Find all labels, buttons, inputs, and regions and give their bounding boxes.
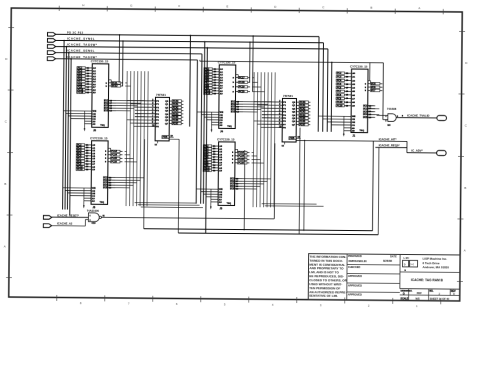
svg-text:PC41: PC41 [173,103,179,106]
comparator 74F521 H6 body [155,93,169,141]
wire col2 tap lower io3 [242,183,263,185]
SRAM J3 upper right pin PC13 [232,151,250,154]
SRAM J6 address pin PC8 [77,83,97,86]
input connector port 5 [47,57,55,61]
wire bundle col1 vertical 4 [137,71,138,206]
SRAM CY7C150_15 J5 body [90,136,109,209]
SRAM J5 control pin CS [70,195,96,197]
SRAM J1 control collector wire and junction [343,116,345,136]
SRAM J4 upper right pin riser [236,75,239,78]
svg-text:I/O5: I/O5 [104,111,109,113]
svg-text:C: C [465,123,467,127]
comparator H6 P input pin 4 [135,112,160,115]
comparator H4 Q input pin 5 [292,117,310,120]
SRAM J6 data pin I/O3 [104,105,116,107]
wire lineB bottom bus horizontal [178,233,378,235]
SRAM J6 address pin PC10 [77,88,97,91]
wire col1 tap lower io3 [115,182,136,184]
SRAM J4 address pin PC8 [204,84,224,87]
svg-text:WE: WE [352,116,356,118]
net label ICACHE_SEN0L [67,49,95,53]
svg-text:ICACHE_TVALID: ICACHE_TVALID [407,113,429,117]
svg-text:PC42: PC42 [300,107,306,110]
wire col2 tap lower PC15 [252,158,261,160]
wire col2 feeder vertical net4 corner [201,54,202,204]
SRAM J3 address pin PC9 [203,164,223,167]
svg-text:NC: NC [387,125,391,127]
wire bundle col2 vertical 6 [271,72,272,207]
comparator H4 Q input pin 3 [292,110,310,113]
net label ICACHE_SYN0L [67,37,95,41]
svg-text:PC16: PC16 [238,163,244,165]
SRAM J5 data pin I/O1 [103,177,115,179]
zone tick marks and numbers bottom edge [57,295,441,308]
wire ADV corner down [407,141,437,153]
comparator H6 P input pin 0 [135,99,160,102]
SRAM J5 control pin A9 [84,197,96,200]
SRAM J4 data pin I/O1 [231,101,243,103]
svg-text:PC16: PC16 [111,162,117,164]
SRAM J3 data pin I/O5 [230,187,242,190]
wire col3 feeder vertical net1 corner [317,37,320,132]
wire col1 tap lower io1 [115,177,143,179]
svg-text:L M I: L M I [404,257,410,260]
wire bundle col2 vertical 2 [257,72,258,207]
wire col1 feeder vertical net2 [62,40,65,210]
wire col2 tap lower PC16 [252,162,264,164]
svg-text:PC40: PC40 [300,101,306,104]
wire col3 data riser from extension line [369,63,371,81]
svg-text:|∞|: |∞| [411,262,415,266]
svg-text:PC15: PC15 [238,159,244,161]
comparator H6 Q input pin 2 [165,106,183,109]
svg-text:D: D [453,292,455,296]
SRAM J4 control pin WE [197,112,224,114]
SRAM J4 data pin I/O3 [231,106,243,108]
comparator H6 P input pin 3 [135,109,160,112]
net label IC_ADV* [411,149,423,153]
title block outer frame [308,254,460,301]
svg-text:REF: REF [417,292,422,295]
SRAM J1 address pin PC4 [336,79,356,82]
svg-text:TSQ: TSQ [100,125,105,127]
SRAM J3 data pin I/O1 [230,178,242,180]
svg-text:CE: CE [352,119,356,121]
svg-text:CY7C150_15: CY7C150_15 [350,64,368,68]
wire AND gate inputs [377,115,388,119]
svg-text:ICACHE: TAG RAM B: ICACHE: TAG RAM B [411,278,444,282]
wire col1 tap lower PC16 [125,161,137,163]
svg-text:H: H [82,3,84,7]
SRAM J1 control pin OE [327,122,355,124]
SRAM J1 address pin PC6 [336,86,356,89]
svg-text:A: A [418,6,420,10]
svg-text:D: D [5,57,7,61]
svg-text:PC47: PC47 [172,122,178,125]
svg-text:PC44: PC44 [173,113,179,116]
wire col2 tap P0 [254,101,262,103]
wire col2 riser to lineB [298,128,301,234]
svg-text:PC19: PC19 [239,87,245,89]
SRAM J3 upper right pin riser [235,149,238,152]
wire bundle col1 vertical 7 [147,71,148,206]
svg-text:ICACHE_RESET*: ICACHE_RESET* [57,213,80,217]
SRAM J4 address pin PC9 [204,87,224,90]
wire col2 feeder vertical net3 [205,47,208,233]
comparator H6 Q input pin 7 [165,122,183,125]
SRAM J4 control pin A9 [212,121,224,124]
wire col2 tap P4 [262,114,268,116]
wire col1 tap io3 [116,105,137,107]
svg-text:CS: CS [352,125,356,127]
net label ICACHE_REQ0* [379,143,401,147]
SRAM J3 upper right pin PC15 [232,158,250,161]
svg-text:PC5: PC5 [337,84,342,86]
wire bundle col1 vertical 2 [130,71,131,206]
wire col2 tap upper box 1 [252,77,254,79]
wire bundle col1 vertical 1 [126,71,127,206]
wire col1 tap io1 [116,100,144,102]
svg-text:A: A [4,244,6,248]
comparator H6 P input pin 8 [135,125,160,128]
wire col2 tap P7 [257,123,261,125]
SRAM J6 upper right pin riser [109,80,112,83]
net label ICACHE_TVALID [407,113,429,117]
svg-text:B: B [464,186,466,190]
AND gate U2 74AS08 [385,107,404,127]
SRAM J5 control pin CE [65,190,95,192]
svg-text:SHEET 14 OF 40: SHEET 14 OF 40 [430,298,450,301]
SRAM J1 data pin I/O1 [363,105,375,107]
comparator H6 P input pin 7 [135,122,160,125]
SRAM J4 address pin PC7 [204,81,224,84]
title block signature column [347,254,400,297]
svg-text:PRB: PRB [163,137,168,139]
SRAM J1 address pin PC3 [336,76,356,79]
wire bundle col1 vertical 3 [133,71,134,206]
wire col1 PC12 riser from net2 [122,40,124,86]
wire col1 feeder vertical net4 [67,52,70,210]
svg-text:PC44: PC44 [300,114,306,117]
svg-text:PC20: PC20 [239,91,245,93]
svg-text:APPROVED: APPROVED [348,294,362,297]
wire col2 tap lower PC14 [252,155,257,157]
svg-text:I/O5: I/O5 [103,188,108,190]
SRAM CY7C150_15 J6 body [90,59,109,132]
wire col2 feeder vertical net5 corner [196,60,197,204]
svg-text:D: D [465,61,467,65]
wire lineA right riser to ICACHE_HIT [372,141,375,231]
wire col1 tap io2 [116,102,141,104]
wire col2 PC17 riser from net1 [252,35,254,91]
SRAM J6 data pin I/O5 [104,109,116,112]
wire comparator H4 PRB drop to lineA [303,140,305,231]
SRAM J4 upper right pin PC19 [233,86,251,89]
comparator H4 P input pin 3 [262,110,287,113]
svg-text:PC3: PC3 [337,77,342,79]
SRAM J3 control pin CE [201,192,223,194]
comparator H6 Q input pin 6 [165,119,183,122]
SRAM J5 address pin PC2 [76,144,96,147]
SRAM J1 data pin I/O4 [363,113,375,116]
svg-text:I/O3: I/O3 [363,111,368,113]
svg-text:PC40: PC40 [173,100,179,103]
SRAM J3 address pin PC18 [203,169,223,172]
svg-text:PC18: PC18 [77,169,83,171]
comparator H6 Q input pin 3 [165,109,183,112]
SRAM J4 control pin CS [207,120,223,122]
comparator H4 P input pin 7 [262,123,287,126]
SRAM J3 address pin PC2 [203,145,223,148]
SRAM J5 data pin I/O3 [103,182,115,184]
SRAM J4 address pin PC3 [204,71,224,74]
wire col2 tap lower io4 [242,185,260,187]
svg-text:PC41: PC41 [300,104,306,107]
SRAM J3 control collector wire and junction [210,189,212,209]
wire col1 tap P4 [135,113,141,115]
wire net3 horizontal ICACHE_TAG0W* [56,47,328,49]
comparator H6 P input pin 5 [135,115,160,118]
svg-text:PC45: PC45 [173,116,179,119]
SRAM J4 upper right pin PC17 [233,76,251,79]
SRAM J6 address pin PC3 [77,69,97,72]
svg-text:ICACHE_REQ0*: ICACHE_REQ0* [379,143,401,147]
SRAM J1 address pin PC2 [336,72,356,75]
svg-text:IC_ADV*: IC_ADV* [411,149,423,153]
SRAM J5 control pin A8 [84,200,96,203]
SRAM J6 upper right pin PC11 [106,82,124,85]
SRAM J6 control pin CE [66,113,96,115]
svg-text:B: B [370,6,372,10]
svg-text:74AS1000: 74AS1000 [87,209,100,213]
zone tick marks left edge [3,27,14,277]
title block drawing title cell [400,278,460,289]
zone tick marks right edge [457,31,468,281]
svg-text:I/O5: I/O5 [371,84,376,86]
wire bundle col1 vertical 5 [140,71,141,206]
svg-text:NO.: NO. [429,291,433,293]
svg-text:TSQ: TSQ [100,202,105,204]
SRAM J5 control collector wire and junction [83,188,85,208]
SRAM J6 control pin A8 [85,123,97,126]
svg-text:74F521: 74F521 [283,94,293,98]
SRAM J1 upper right pin I/O5 [365,82,383,85]
SRAM J3 control pin OE [203,194,222,196]
wire col3 data tap 5 [368,116,374,118]
SRAM J5 address pin PC4 [76,149,96,152]
SRAM J4 data pin I/O2 [231,104,243,106]
output connector IC_ADV* [437,150,447,155]
input connector port 4 [47,51,55,55]
wire col2 tap io5 [243,111,257,113]
SRAM J4 address pin PC2 [204,68,224,71]
svg-text:N/S: N/S [416,297,421,300]
svg-text:PC8: PC8 [337,95,342,97]
SRAM J1 control pin A8 [344,130,356,133]
wire col1 tap P0 [127,100,135,102]
SRAM J1 control pin A9 [344,127,356,130]
wire col3 data tap 4 [368,113,380,115]
wire col1 tap lower PC14 [125,154,130,156]
svg-text:OE: OE [352,122,356,124]
wire col2 tap io2 [243,103,268,105]
SRAM CY7C150_15 J1 body [349,64,368,137]
comparator H6 PRB enable output pin 19 [162,135,174,139]
SRAM J3 address pin PC5 [203,153,223,156]
svg-text:PRB: PRB [290,138,295,140]
svg-text:PC15: PC15 [111,158,117,160]
SRAM J1 address pin PC7 [336,90,356,93]
wire col1 tap lower PC15 [125,157,134,159]
comparator H4 Q input pin 0 [292,101,310,104]
wire ICACHE_HIT* horizontal [296,139,407,142]
SRAM J3 control pin A8 [211,201,223,204]
wire col2 tap lower io1 [242,178,270,180]
SRAM J3 data pin I/O4 [230,185,242,188]
net label ICACHE_TAG0W* [67,55,98,59]
SRAM J5 address pin PC8 [76,160,96,163]
svg-text:I/O6: I/O6 [371,87,376,89]
SRAM J4 data pin I/O4 [231,108,243,111]
wire col3 feeder vertical net2 corner [322,43,325,132]
comparator H6 P input pin 1 [135,103,160,106]
svg-text:74AS08: 74AS08 [387,107,397,111]
wire col1-to-col2 lower run 2 [138,204,200,207]
wire col2 tap lower io5 [242,188,256,190]
SRAM J3 data pin I/O3 [230,183,242,185]
zone tick marks and letters top edge [59,3,443,14]
SRAM J5 upper right pin PC15 [105,157,123,160]
svg-text:SENTATIVE OF LMI.: SENTATIVE OF LMI. [309,294,338,298]
wire col3 feeder vertical from extension line [330,62,332,132]
wire bundle col2 vertical 7 [274,72,275,207]
SRAM J3 upper right pin PC16 [232,162,250,165]
comparator H6 Q input pin 4 [165,112,183,115]
svg-text:CY7C150_15: CY7C150_15 [90,136,108,140]
comparator H4 enable pin 1 bottom [282,142,285,148]
svg-text:ICACHE_A2: ICACHE_A2 [57,222,73,226]
input connector port 2 [47,39,55,43]
wire col1 tap upper box 2 [125,85,130,87]
title block company cell with LMI logo [400,257,460,273]
wire col2-to-col3 lower run 1 [262,203,317,205]
wire col3 data tap 2 [368,108,380,110]
SRAM J3 address pin PC6 [203,156,223,159]
comparator H4 Q input pin 2 [292,107,310,110]
net label ICACHE_RESET* [57,213,80,217]
comparator H4 P input pin 8 [262,126,287,129]
wire col1 feeder vertical net3 [64,46,67,210]
svg-text:PC18: PC18 [337,106,343,108]
wire col1 tap P6 [127,119,135,121]
wire bundle col2 vertical 5 [267,72,268,207]
SRAM J1 upper right pin riser [368,81,371,84]
SRAM J1 upper right pin I/O7 [365,89,383,92]
NAND gate U1 74AS1000 [87,209,106,225]
svg-text:APPROVED: APPROVED [348,275,362,278]
wire col2 tap P1 [257,104,261,106]
comparator H4 P input pin 6 [262,120,287,123]
wire col2 tap P5 [262,117,271,119]
wire col2 tap io1 [243,101,271,103]
wire lineB left riser from comparator H6 PRB [168,139,179,233]
comparator H4 PRB enable output pin 19 [289,136,301,140]
wire col1-to-col2 lower run 1 [135,202,196,205]
svg-text:PC7: PC7 [337,91,342,93]
comparator H4 P input pin 5 [262,117,287,120]
wire bundle col2 vertical 4 [264,72,265,207]
svg-text:I/O4: I/O4 [363,113,368,116]
comparator H4 Q input pin 6 [292,120,310,123]
SRAM J6 address pin PC6 [77,78,97,81]
SRAM J5 upper right pin PC13 [105,150,123,153]
SRAM J5 address pin PC18 [76,168,96,171]
SRAM J6 control collector wire and junction [84,111,86,131]
svg-text:C: C [5,119,7,123]
svg-text:I/O7: I/O7 [371,90,376,92]
drawing border frame [9,8,463,301]
comparator H6 P input pin 6 [135,119,160,122]
SRAM J3 address pin PC4 [203,150,223,153]
wire col3 data tap 1 [368,105,374,107]
svg-text:PC42: PC42 [173,106,179,109]
svg-text:PC14: PC14 [238,155,244,158]
SRAM J3 control pin WE [196,189,223,191]
SRAM J6 data pin I/O4 [104,107,116,110]
svg-text:PC12: PC12 [112,86,118,88]
wire col1 tap io4 [116,107,134,109]
wire col1-to-col2 lower run 3 [141,206,203,209]
wire col1 feeder vertical net5 [69,58,72,215]
SRAM J5 upper right pin PC16 [105,161,123,164]
svg-text:Andover, MA 01810: Andover, MA 01810 [423,265,450,269]
SRAM J3 control pin A9 [211,198,223,201]
svg-text:PC43: PC43 [300,111,306,114]
wire net1 horizontal PD bus [56,34,319,36]
comparator H6 Q input pin 5 [165,116,183,119]
comparator 74F521 H4 body [282,94,296,142]
SRAM J1 address pin PC5 [336,83,356,86]
wire ICACHE_REQ0* horizontal [375,146,407,148]
wire col2 PC18 riser from net2 [249,41,251,82]
wire net4 horizontal ICACHE_SEN0L [56,53,202,54]
output connector ICACHE_TVALID [437,115,447,120]
svg-text:CY7C150_15: CY7C150_15 [91,59,109,63]
comparator H4 P input pin 1 [262,104,287,107]
SRAM J6 data pin I/O1 [104,100,116,102]
svg-text:PC14: PC14 [111,154,117,157]
SRAM J4 control collector wire and junction [211,112,213,132]
SRAM J5 address pin PC10 [76,165,96,168]
wire net2 horizontal ICACHE_SYN0L [56,40,324,42]
wire col1 tap io5 [116,110,130,112]
SRAM J1 data pin I/O5 [363,116,375,119]
comparator H6 Q input pin 0 [165,100,183,103]
svg-text:PC9: PC9 [337,98,342,100]
wire col2 tap io4 [243,108,261,110]
comparator H6 Q input pin 1 [165,103,183,106]
comparator H4 P input pin 0 [262,101,287,104]
wire col3 feeder vertical net3 corner [326,49,329,132]
net label PD 3C P32 [67,31,84,34]
svg-text:E: E [226,4,228,8]
wire col2 tap lower PC13 [252,151,254,153]
svg-text:CY7C150_15: CY7C150_15 [217,137,235,141]
SRAM J3 address pin PC3 [203,148,223,151]
SRAM J6 upper right pin PC12 [106,85,124,88]
net label ICACHE_TAG0W* [67,43,98,47]
SRAM J1 data pin I/O3 [363,111,375,113]
